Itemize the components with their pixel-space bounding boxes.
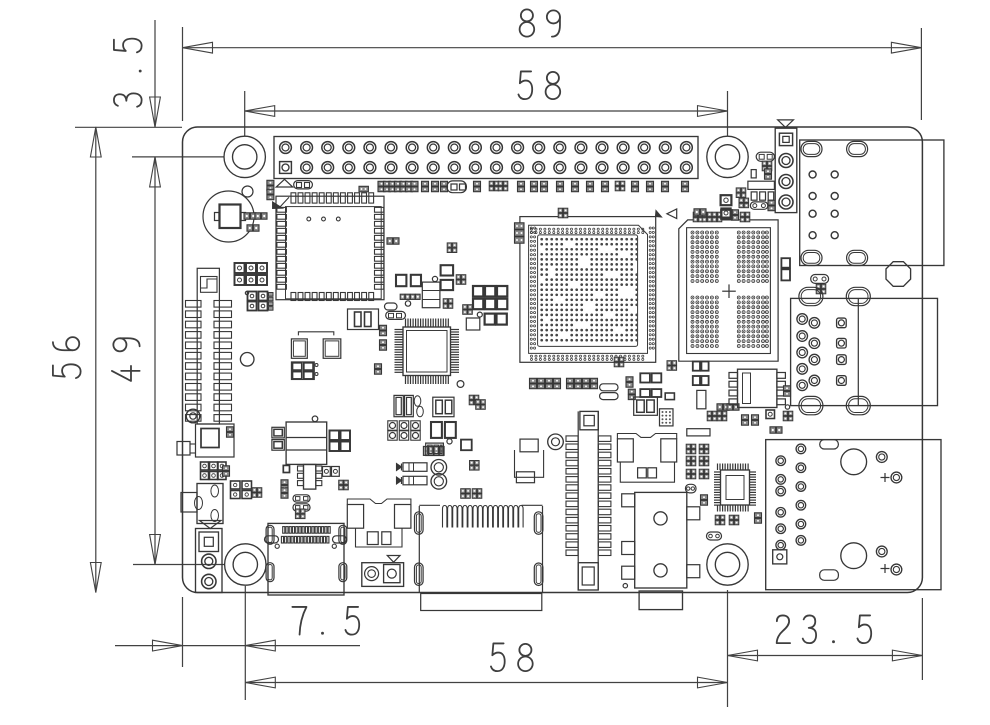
3-pin pad strip bottom-left <box>196 529 223 593</box>
LAN/USB hub chip QFN <box>714 464 756 512</box>
4-pad strip <box>400 294 420 306</box>
SOT component <box>515 439 544 483</box>
pads around LAN chip <box>701 495 762 540</box>
display flex connector vertical <box>566 411 611 590</box>
capacitor cluster left of wifi <box>235 263 268 285</box>
3 pads <box>751 192 774 200</box>
crystal grid component <box>660 409 674 426</box>
capacitor pair with notch bracket (above audio) <box>617 434 676 483</box>
PoE header <box>775 128 797 212</box>
mounting hole top-right <box>707 136 748 177</box>
pad cluster <box>463 305 483 317</box>
4-pad strip <box>423 446 444 455</box>
capacitor bank 2x2 <box>231 481 262 499</box>
octagon boss <box>886 262 911 287</box>
small comp left edge <box>177 442 195 456</box>
board outline <box>183 127 923 593</box>
capacitor C <box>441 280 454 290</box>
capacitor bank 2x3 small <box>201 462 230 480</box>
SOT regulator <box>283 465 322 490</box>
dark pads <box>721 188 749 218</box>
dimension 56 (board height) <box>53 127 101 593</box>
HDMI connector <box>265 523 347 595</box>
SDRAM BGA U <box>679 220 778 361</box>
diode pair with round pads <box>397 460 447 490</box>
tall capacitors <box>394 395 423 416</box>
via ring near flex <box>548 434 564 450</box>
pads right of SOT <box>323 467 340 477</box>
4-pad component <box>291 362 318 380</box>
squares pair <box>431 422 456 438</box>
pad clusters <box>614 357 676 399</box>
via + square <box>447 439 472 450</box>
crystal circle <box>203 191 254 242</box>
small rect <box>751 169 771 179</box>
pill pads <box>600 384 618 400</box>
capacitors <box>485 314 507 325</box>
pad strip below SoC <box>530 378 598 388</box>
pad clusters center <box>295 395 485 518</box>
dimension 23.5 (right side) <box>728 590 923 707</box>
pads left of SoC <box>515 223 525 243</box>
component with triangle marker <box>362 556 404 587</box>
QFP chip U <box>395 319 464 388</box>
pad above SoC <box>558 208 568 218</box>
pill pad right of RUN <box>294 181 313 189</box>
micro-USB power connector <box>181 484 223 524</box>
small rect <box>466 318 480 330</box>
GPIO 40-pin header J8 <box>274 137 698 179</box>
capacitors left of regulator <box>272 427 284 450</box>
triangle marker near RUN <box>276 179 293 187</box>
pill pad below ethernet <box>811 275 829 294</box>
SoC BGA U1 <box>520 217 656 363</box>
pad right of wifi <box>387 238 399 244</box>
via dot <box>432 276 437 281</box>
inductor block <box>433 397 454 417</box>
capacitor pair with bracket <box>291 332 340 359</box>
pad cluster <box>443 299 453 309</box>
triangle marker below micro-USB <box>200 521 222 529</box>
audio jack <box>622 492 700 609</box>
bar component <box>748 181 775 189</box>
component with 2 bars <box>348 309 379 330</box>
pads above RAM right <box>694 209 732 219</box>
USB connector lower <box>766 440 941 590</box>
dimension 49 (hole vertical spacing) <box>112 157 224 565</box>
test pad pill below header <box>447 181 466 193</box>
DSI display connector <box>186 268 235 457</box>
capacitor C <box>441 265 454 275</box>
small circle above crystal <box>242 186 253 197</box>
capacitors right of wifi <box>396 275 421 286</box>
dimension 58 (top hole spacing) <box>245 71 728 136</box>
mounting hole top-left <box>224 136 265 177</box>
pads right of crystal <box>244 213 267 231</box>
SOIC8 chip U <box>729 369 785 407</box>
pads column right of wifi <box>375 325 387 374</box>
resistor pads row below GPIO header <box>378 181 689 192</box>
3-pad strip <box>426 443 444 455</box>
squares right of RAM <box>693 362 739 411</box>
pill pad <box>756 152 774 161</box>
USB connector upper <box>791 287 938 415</box>
dimension 3.5 (top-left hole offset) <box>75 20 224 157</box>
pads left of HDMI caps <box>330 431 351 490</box>
round pad grid 2x3 <box>388 421 420 440</box>
pads between audio jack and LAN chip <box>686 429 711 493</box>
regulator block <box>286 416 327 464</box>
pads below regulator <box>281 480 310 511</box>
pill pad <box>750 200 775 210</box>
via ring left edge <box>186 409 200 423</box>
via <box>240 353 254 367</box>
open triangle marker left of RAM <box>667 209 677 219</box>
capacitors right edge of RAM <box>781 258 790 280</box>
inductor 3-section <box>422 282 440 308</box>
Ethernet jack <box>800 140 944 266</box>
fiducial arrow right of SoC <box>656 211 662 217</box>
pads between USB connectors <box>707 410 782 433</box>
component 2 caps <box>634 397 658 415</box>
capacitor pair with notch bracket (left of CSI) <box>347 499 411 547</box>
capacitor bank 2x3 <box>473 286 507 309</box>
mounting hole bottom-left <box>225 544 266 585</box>
mounting hole bottom-right <box>707 544 748 585</box>
CSI camera connector <box>415 505 543 610</box>
pad cluster below-left of SoC <box>447 243 466 284</box>
capacitor cluster 2x2 <box>245 291 273 310</box>
dimension 89 (top overall width) <box>183 9 922 121</box>
dimension 58 (bottom hole spacing) <box>245 643 727 687</box>
dimension 7.5 (bottom-left hole offset) <box>115 586 360 700</box>
pill pads near wifi bottom <box>385 303 406 319</box>
RUN header pads <box>267 180 369 199</box>
triangle marker above PoE <box>778 120 794 128</box>
wifi module U <box>273 193 384 301</box>
capacitor pairs <box>640 373 674 399</box>
pad row above RAM <box>693 210 750 222</box>
pad cluster <box>762 161 772 171</box>
pads left of USB upper <box>783 386 793 421</box>
